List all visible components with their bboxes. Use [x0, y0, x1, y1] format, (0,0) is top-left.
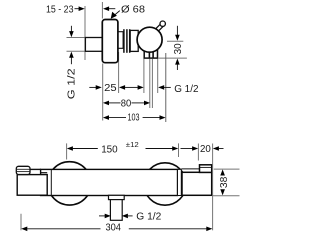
- svg-text:103: 103: [128, 113, 140, 124]
- svg-text:20: 20: [200, 144, 211, 155]
- svg-text:Ø 68: Ø 68: [121, 4, 145, 15]
- svg-text:150: 150: [101, 144, 118, 155]
- svg-text:304: 304: [105, 223, 121, 234]
- svg-text:80: 80: [121, 99, 132, 110]
- svg-text:30: 30: [173, 43, 184, 54]
- svg-text:G 1/2: G 1/2: [174, 84, 199, 95]
- svg-text:±12: ±12: [126, 142, 139, 149]
- svg-text:38: 38: [219, 176, 230, 188]
- svg-text:G 1/2: G 1/2: [136, 211, 161, 222]
- svg-text:25: 25: [104, 83, 117, 94]
- svg-text:15 - 23: 15 - 23: [46, 4, 74, 15]
- svg-text:G 1/2: G 1/2: [67, 68, 78, 100]
